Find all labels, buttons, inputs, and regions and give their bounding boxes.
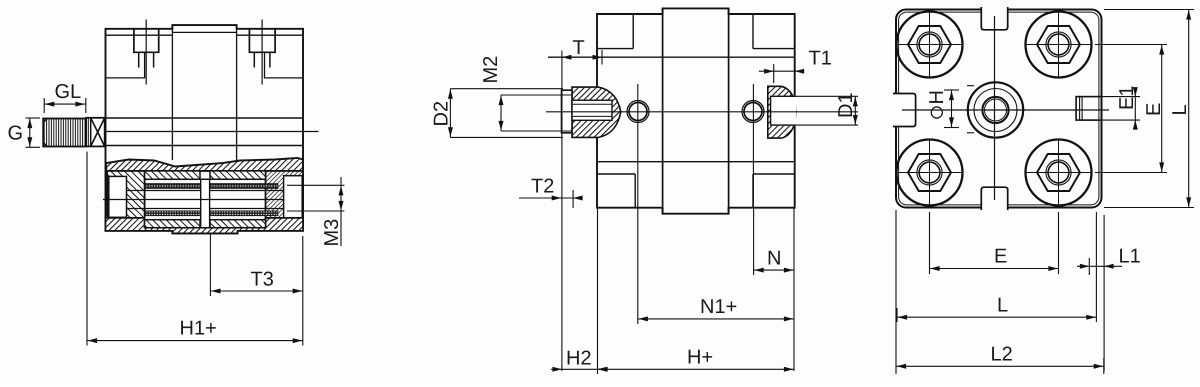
- side port boss: [1076, 97, 1101, 121]
- top band line left: [106, 34, 173, 36]
- corner square TR: [753, 14, 795, 49]
- dimension H2: [551, 208, 608, 374]
- screw TR: [1025, 11, 1092, 78]
- screw centerline right: [261, 20, 263, 85]
- piston rod top line: [105, 117, 304, 119]
- left circle centerline: [637, 84, 639, 208]
- lower rod top line: [127, 190, 284, 192]
- center block left edge: [171, 25, 173, 160]
- inner edge line: [899, 12, 1099, 205]
- face outline: [896, 10, 1102, 208]
- lower seal strip: [145, 211, 278, 216]
- dimension E right: [1095, 45, 1167, 173]
- right port cup: [768, 86, 797, 138]
- dimension E1: [1082, 88, 1140, 129]
- dimension L bottom: [897, 212, 1096, 322]
- body outline: [597, 8, 795, 213]
- dimension E bottom: [930, 212, 1059, 274]
- center block right edge: [236, 25, 238, 160]
- bottom notch: [981, 187, 1007, 210]
- rod bearing block with X: [86, 118, 105, 147]
- piston center bar: [201, 179, 210, 227]
- screw TL: [896, 11, 963, 78]
- screw hole left lines: [139, 52, 154, 67]
- left notch: [893, 94, 916, 127]
- right cap window: [284, 176, 303, 221]
- left cap window: [109, 176, 127, 217]
- dimension D1: [774, 96, 858, 125]
- end cap step left: [106, 52, 145, 78]
- bore top line: [145, 178, 266, 180]
- lower rod bottom line: [127, 208, 284, 210]
- inner bar top-right: [210, 171, 266, 179]
- body outline: [106, 25, 304, 233]
- piston rod bottom line: [105, 145, 304, 147]
- dimension D2: [450, 89, 563, 138]
- inner bar bottom-right: [210, 220, 266, 228]
- left cushion circle: [627, 101, 649, 123]
- wavy top wall band: [106, 158, 303, 171]
- end cap step right: [265, 52, 304, 78]
- dimension M3 leaders: [287, 177, 344, 246]
- inner bar top-left: [145, 171, 200, 179]
- label H: [929, 92, 943, 119]
- upper full-width line: [548, 56, 795, 58]
- tube block edges: [662, 8, 664, 213]
- top band line center: [172, 31, 236, 33]
- dimension T1: [759, 64, 802, 83]
- corner square BL: [597, 174, 635, 208]
- dimension T3: [210, 234, 302, 346]
- threaded rod end: [43, 119, 86, 147]
- right cushion circle: [742, 101, 764, 123]
- right circle centerline: [752, 84, 754, 208]
- label M3: [324, 220, 338, 245]
- rod centerline: [99, 131, 319, 133]
- screw hole right lines: [254, 52, 270, 67]
- dimension T: [561, 51, 563, 372]
- dimension N: [754, 208, 794, 371]
- corner square TL: [597, 14, 633, 49]
- corner square BR: [753, 174, 795, 208]
- face vertical centerline: [994, 16, 996, 200]
- dimension M2: [501, 95, 572, 131]
- dimension H: [944, 86, 974, 133]
- dimension L right: [1104, 10, 1194, 208]
- dimension L1: [1077, 215, 1122, 371]
- upper seal strip: [145, 184, 278, 189]
- dimension T2: [519, 190, 580, 208]
- dimension H+: [598, 368, 795, 370]
- dimension H1+: [87, 152, 303, 346]
- screw centerline left: [145, 20, 147, 85]
- dimension GL: [44, 98, 86, 113]
- dimension G: [26, 118, 41, 147]
- left port bushing: [562, 87, 621, 137]
- inner bar bottom-left: [145, 220, 200, 228]
- port notch left: [106, 196, 110, 200]
- right cap block: [266, 171, 304, 218]
- dimension N1+: [638, 208, 794, 324]
- screw counterbore right box: [249, 29, 275, 53]
- top notch: [981, 7, 1007, 30]
- screw counterbore left box: [134, 29, 159, 53]
- dimension L2: [896, 210, 1104, 374]
- bottom band: [106, 218, 304, 234]
- center rod boss: [968, 82, 1023, 137]
- screw BR: [1025, 139, 1092, 206]
- screw BL: [896, 139, 963, 206]
- top band line right: [237, 34, 303, 36]
- section centerline: [103, 199, 284, 201]
- left cap block: [107, 171, 144, 218]
- lower full-width line: [597, 161, 795, 163]
- horizontal centerline of middle view: [546, 111, 858, 113]
- bore bottom line: [145, 227, 266, 229]
- face horizontal centerline: [902, 109, 1109, 111]
